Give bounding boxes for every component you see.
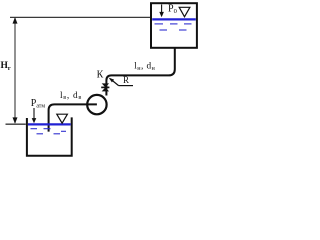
svg-text:К: К [97,70,104,81]
svg-text:R: R [123,75,129,85]
